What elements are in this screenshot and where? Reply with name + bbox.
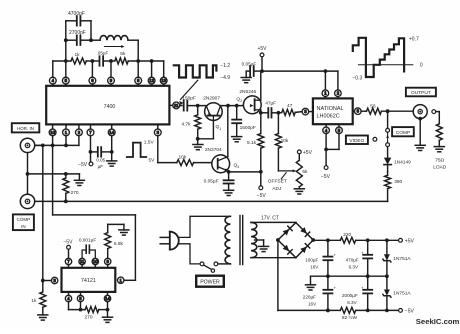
svg-text:.05µF: .05µF [97, 51, 109, 56]
resistor 82 1/2W [340, 307, 355, 313]
transformer T1 primary [225, 216, 230, 264]
wire shield to ground [28, 173, 80, 175]
wire 390 to comp bus [387, 189, 389, 202]
svg-text:HOR. IN: HOR. IN [17, 126, 34, 131]
resistor 5k (feedback) [115, 58, 128, 64]
svg-text:10: 10 [50, 130, 55, 135]
ground (4.7k) [197, 139, 199, 145]
wire pin7 to -5V and cap [90, 136, 92, 152]
potentiometer 5k OFFSET ADJ [297, 150, 301, 154]
resistor 10k (offset) [275, 134, 281, 149]
wire pin3 to 10k [157, 136, 159, 163]
7400 bottom pin 2 [76, 129, 83, 136]
svg-text:OUTPUT: OUTPUT [411, 90, 431, 96]
IC U3 74121 body [62, 268, 116, 292]
wire pin13 stub [163, 61, 165, 77]
transistor Q2 2N5246 JFET [243, 96, 261, 114]
wire 4.7k junction to Q1 [198, 138, 214, 140]
74121 pin 11 [79, 258, 85, 264]
svg-text:1N751A: 1N751A [393, 291, 411, 297]
svg-text:1k: 1k [31, 298, 37, 304]
svg-text:−5V: −5V [63, 240, 73, 246]
resistor 6.8k [107, 249, 109, 259]
svg-text:47: 47 [287, 103, 293, 109]
svg-text:NATIONAL: NATIONAL [317, 106, 344, 112]
svg-text:2000µF: 2000µF [342, 293, 358, 298]
svg-text:0.05µF: 0.05µF [242, 61, 257, 66]
svg-text:6.3V: 6.3V [347, 300, 357, 305]
op-amp pin 2 [335, 90, 342, 97]
transistor Q3 2N3704 [212, 155, 230, 173]
svg-text:2N2907: 2N2907 [203, 95, 220, 101]
svg-text:16V: 16V [310, 264, 319, 269]
wire +5V rail [356, 239, 399, 241]
7400 bottom pin 3 [154, 129, 161, 136]
resistor 270 (74121) [85, 307, 99, 313]
wire pin8 stub [137, 61, 139, 77]
ground (74121) [103, 316, 113, 318]
7400 top pin 4 [49, 77, 56, 84]
svg-text:390: 390 [394, 179, 402, 185]
wire plug bottom to switch [178, 244, 200, 264]
svg-text:+5V: +5V [405, 238, 415, 244]
svg-text:5V: 5V [149, 157, 156, 163]
terminal -5V output [399, 309, 403, 313]
74121 pin 3 [51, 277, 57, 283]
svg-text:1k: 1k [75, 52, 81, 58]
resistor 10k (pin3 to Q3 base) [177, 160, 194, 166]
wire BNC1 to bus [35, 144, 43, 146]
svg-text:6.8k: 6.8k [114, 241, 124, 247]
capacitor 220uF 16V [326, 274, 330, 278]
svg-text:−1.2: −1.2 [220, 63, 230, 69]
7400 pin 11 output [169, 104, 172, 106]
terminal +5V output [399, 238, 403, 242]
transformer secondary [251, 222, 257, 257]
capacitor 150pF [183, 101, 185, 111]
op-amp pin 3 [302, 108, 309, 115]
capacitor .05uF (feedback) [99, 56, 101, 66]
svg-text:12: 12 [149, 78, 154, 83]
7400 top pin 6 [89, 77, 96, 84]
wire cap loop verticals [65, 21, 67, 61]
op-amp pin 1 [322, 90, 329, 97]
svg-text:0.05: 0.05 [96, 158, 105, 163]
svg-text:SeekIC.com: SeekIC.com [416, 317, 460, 326]
74121 pin 1 [118, 277, 124, 283]
capacitor 0.05uF (pin7) [92, 151, 98, 153]
terminal jumper top [386, 128, 390, 132]
wire plug top to transformer [178, 216, 230, 237]
resistor 56 [367, 108, 382, 114]
wire top feedback bus [53, 60, 71, 62]
waveform square wave symbol [174, 65, 217, 77]
svg-text:4.7k: 4.7k [182, 122, 192, 128]
wire Q3 collector up [227, 106, 229, 157]
connector J1 HOR IN BNC [20, 138, 34, 152]
74121 pin 7 [65, 258, 71, 264]
capacitor 2700pF [66, 39, 77, 41]
wire 10k to Q3 base [194, 162, 212, 164]
wire wiper arrow [278, 170, 293, 172]
inductor tuning arrow [105, 46, 122, 48]
capacitor 100uF 16V [327, 240, 329, 256]
wire Q2 drain to +5V rail [260, 71, 262, 100]
wire secondary top to bridge [251, 221, 296, 223]
svg-text:10: 10 [93, 259, 98, 264]
op-amp pin 4 [323, 127, 330, 134]
capacitor 0.05uF (Q3) [228, 172, 230, 180]
terminal -5V (5.1k) [260, 172, 262, 186]
svg-text:LOAD: LOAD [433, 165, 447, 171]
inductor L1 [91, 39, 100, 41]
7400 bottom pin 1 [63, 129, 70, 136]
svg-text:47µF: 47µF [265, 100, 276, 105]
capacitor 2000uF 6.3V [367, 276, 369, 290]
svg-text:220: 220 [343, 232, 351, 238]
wire Q2 source down [260, 110, 262, 113]
wire pin11 to cap [180, 105, 182, 107]
bridge diode D5 [300, 247, 307, 254]
7400 top pin 9 [108, 77, 115, 84]
COMP IN label box [13, 214, 34, 230]
svg-text:14: 14 [109, 130, 114, 135]
svg-text:150pF: 150pF [182, 95, 196, 101]
wire BNC shell to ground [418, 117, 422, 121]
svg-text:270: 270 [85, 315, 93, 321]
resistor 47 [278, 112, 281, 114]
svg-text:13: 13 [161, 78, 166, 83]
wire pin14 to ground [111, 136, 113, 161]
svg-text:0.001µF: 0.001µF [79, 237, 96, 242]
COMP label box [392, 127, 414, 136]
svg-text:−4.9: −4.9 [220, 75, 230, 81]
transistor Q1 2N2907 [205, 103, 223, 121]
svg-text:11: 11 [80, 259, 85, 264]
svg-text:17V. CT: 17V. CT [261, 215, 279, 221]
ground (decoupling) [241, 77, 251, 79]
74121 pin 10 [92, 258, 98, 264]
resistor 75 ohm load [436, 124, 442, 141]
wire pin10 to 74121 trigger [52, 145, 54, 215]
ground (output BNC) [415, 144, 425, 146]
7400 top pin 12 [148, 77, 155, 84]
svg-text:5k: 5k [302, 169, 308, 175]
svg-text:1N751A: 1N751A [393, 256, 411, 262]
wire pin4 stub [52, 61, 54, 77]
svg-text:56: 56 [370, 103, 376, 109]
wire hor-in bus [35, 144, 79, 146]
waveform staircase symbol [353, 38, 404, 77]
svg-text:−5V: −5V [321, 174, 331, 180]
callout arrow to pin 11 [181, 80, 198, 99]
svg-text:100µF: 100µF [305, 258, 318, 263]
wire pins 4,5 to -5V [325, 134, 327, 150]
terminal jumper bottom [386, 143, 390, 147]
wire 47 to op-amp pin 3 [295, 111, 302, 114]
connector J2 COMP IN BNC [20, 194, 34, 208]
capacitor 470uF 6.3V [367, 240, 369, 255]
bridge diode D4 [283, 245, 290, 252]
svg-text:5.1k: 5.1k [247, 140, 257, 146]
svg-text:10k: 10k [281, 138, 289, 144]
svg-text:−0.3: −0.3 [352, 76, 362, 82]
ground (shield) [74, 179, 84, 181]
ground (1k) [38, 314, 48, 316]
ground (Q3 cap) [224, 189, 234, 191]
svg-text:0.05µF: 0.05µF [204, 179, 219, 185]
waveform pulse symbol [127, 143, 146, 157]
capacitor 4700pF [66, 20, 77, 22]
wire pin12 stub [151, 61, 153, 77]
svg-text:LH0062C: LH0062C [317, 113, 340, 119]
7400 bottom pin 14 [108, 129, 115, 136]
terminal video stub [373, 137, 377, 141]
svg-text:2N5246: 2N5246 [239, 89, 256, 95]
diode D1 1N4149 [387, 147, 389, 158]
VIDEO label box [346, 136, 368, 145]
svg-text:1500pF: 1500pF [240, 125, 256, 131]
IC U1 7400 body [46, 86, 169, 125]
svg-text:+0.7: +0.7 [409, 37, 419, 43]
bridge diode D3 [300, 227, 307, 234]
svg-text:VIDEO: VIDEO [349, 138, 364, 144]
ground (center tap) [259, 245, 269, 247]
svg-text:COMP: COMP [17, 217, 31, 222]
POWER label box [196, 276, 224, 287]
transformer core [239, 216, 241, 265]
svg-text:OFFSET: OFFSET [268, 179, 287, 185]
bridge diode D2 [283, 229, 290, 236]
resistor 270 (input) [63, 178, 69, 194]
capacitor 47uF [261, 112, 267, 114]
wire pin6 stub [91, 61, 93, 77]
svg-text:6.3V: 6.3V [349, 264, 359, 269]
svg-text:74121: 74121 [81, 278, 96, 284]
connector J3 OUTPUT BNC [413, 105, 427, 119]
op-amp pin 8 output [353, 110, 355, 112]
wire pin9 stub [110, 61, 112, 77]
resistor 1k (comp input) [40, 292, 46, 307]
svg-text:75Ω: 75Ω [435, 158, 444, 164]
wire bridge plus to rail [313, 239, 340, 241]
svg-text:−5V: −5V [78, 162, 88, 168]
wire center tap to ground [255, 239, 264, 241]
OUTPUT label box [406, 88, 436, 97]
svg-text:COMP: COMP [396, 130, 410, 136]
svg-text:+5V: +5V [257, 46, 267, 52]
svg-text:IN: IN [21, 224, 26, 229]
74121 pin 5 [77, 295, 83, 301]
svg-text:+5V: +5V [303, 150, 313, 156]
7400 bottom pin 7 [87, 129, 94, 136]
resistor 390 [387, 165, 389, 172]
wire output to comp/video jumper [387, 111, 389, 128]
terminal -5V (op-amp) [324, 166, 328, 170]
ground (6.8k) [119, 229, 129, 231]
wire cap to Q2 gate [187, 105, 243, 107]
svg-text:1: 1 [219, 127, 221, 131]
svg-text:2N3704: 2N3704 [205, 147, 222, 153]
terminal -5V (74121) [68, 249, 70, 258]
74121 pin 4 [65, 295, 71, 301]
zener D6 1N751A [386, 240, 388, 254]
wire pin5 stub [65, 61, 67, 77]
wire ground bus [311, 275, 387, 277]
wire bridge minus down [277, 240, 279, 310]
wire hor-in to 74121 vertical [42, 145, 44, 280]
HOR. IN label box [12, 123, 40, 132]
op-amp pin 5 [336, 127, 343, 134]
ground (load) [434, 146, 444, 148]
7400 top pin 8 [135, 77, 142, 84]
zener D7 1N751A [386, 276, 388, 289]
7400 bottom pin 10 [49, 129, 56, 136]
svg-text:3: 3 [237, 165, 239, 169]
svg-text:270: 270 [71, 190, 79, 196]
svg-text:−5V: −5V [257, 193, 267, 199]
wire +5V down [261, 57, 263, 71]
svg-text:1.5V: 1.5V [144, 140, 155, 146]
svg-text:11: 11 [174, 103, 179, 108]
capacitor 1500pF [236, 106, 238, 120]
74121 pin 14 [104, 295, 110, 301]
svg-text:7400: 7400 [104, 104, 116, 110]
ground (pin14) [107, 160, 117, 162]
svg-text:14: 14 [105, 296, 110, 301]
wire to 75 ohm load [436, 111, 440, 113]
waveform staircase axis [359, 64, 413, 66]
svg-text:−5V: −5V [405, 309, 415, 315]
svg-text:10k: 10k [179, 154, 187, 160]
AC plug [169, 232, 171, 250]
svg-text:16V: 16V [308, 301, 317, 306]
svg-text:1N4149: 1N4149 [394, 160, 411, 166]
wire Q3 emitter junction [229, 171, 261, 173]
wire comp bus [35, 200, 388, 202]
capacitor 0.001uF (74121) [82, 250, 86, 258]
74121 pin 9 [105, 258, 111, 264]
resistor 5.1k [258, 134, 264, 149]
svg-text:2700pF: 2700pF [69, 30, 86, 36]
svg-text:470µF: 470µF [346, 258, 359, 263]
resistor 4.7k [195, 115, 201, 129]
resistor 1k (7400 feedback) [71, 58, 86, 64]
wire 74121 bottom [68, 302, 70, 310]
capacitor 0.05uF (decoupling) [254, 70, 262, 72]
ground (supply common) [306, 284, 316, 286]
svg-text:POWER: POWER [200, 279, 220, 285]
svg-text:µF: µF [98, 164, 104, 169]
wire BNC shells vertical [27, 153, 29, 195]
7400 top pin 13 [160, 77, 167, 84]
terminal mating connector [432, 110, 436, 114]
bridge rectifier diodes [278, 223, 296, 240]
svg-text:0: 0 [420, 63, 423, 69]
svg-text:4700pF: 4700pF [68, 11, 85, 17]
svg-text:220µF: 220µF [303, 295, 316, 300]
terminal +5V (Q2) [260, 53, 264, 57]
wire -5V rail [278, 309, 340, 311]
svg-text:5k: 5k [120, 51, 126, 57]
switch S1 power [200, 262, 204, 266]
wire +5V rail to op-amp pins 1,2 [262, 70, 338, 72]
svg-text:82 ½W: 82 ½W [342, 314, 358, 321]
op-amp U2 NATIONAL LH0062C [313, 98, 353, 124]
svg-text:ADJ: ADJ [272, 186, 282, 192]
resistor 220 [340, 237, 355, 243]
wire secondary bottom to bridge [251, 257, 296, 259]
7400 top pin 5 [62, 77, 69, 84]
svg-text:2: 2 [240, 99, 242, 103]
